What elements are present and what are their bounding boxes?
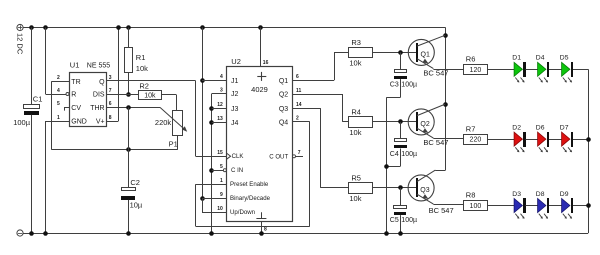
wire D1 to D4 xyxy=(526,69,538,71)
label R5 value 10k xyxy=(349,194,361,203)
wire D9 to return line xyxy=(573,205,588,207)
svg-text:11: 11 xyxy=(296,88,302,94)
node Q3 base junction xyxy=(398,185,403,190)
capacitor C4 xyxy=(384,122,407,169)
svg-text:Q: Q xyxy=(99,79,105,86)
svg-text:U2: U2 xyxy=(231,57,241,66)
svg-text:9: 9 xyxy=(220,192,223,198)
svg-text:10µ: 10µ xyxy=(130,200,143,209)
LED D3 xyxy=(512,191,526,219)
label U1 xyxy=(70,61,80,70)
wire R5 to Q3 base xyxy=(372,187,416,189)
label pin 16 xyxy=(263,60,269,66)
svg-text:Q4: Q4 xyxy=(279,120,288,127)
svg-text:4: 4 xyxy=(57,88,60,94)
label R5 xyxy=(351,174,361,183)
label R3 value 10k xyxy=(349,59,361,68)
svg-text:BC 547: BC 547 xyxy=(423,68,448,77)
capacitor C3 xyxy=(386,52,407,97)
svg-text:Up/Down: Up/Down xyxy=(230,209,255,216)
svg-text:220: 220 xyxy=(470,137,482,144)
plus symbol inside 4029 xyxy=(257,72,266,81)
svg-text:Q2: Q2 xyxy=(420,121,429,128)
svg-text:100µ: 100µ xyxy=(401,151,417,158)
resistor R3 xyxy=(349,48,373,58)
svg-text:4: 4 xyxy=(220,74,223,80)
label P1 value 220k xyxy=(155,118,172,127)
transistor Q2 BC 547 xyxy=(408,104,463,147)
wire D5 to return line xyxy=(573,69,588,71)
svg-text:NE 555: NE 555 xyxy=(87,63,110,70)
4029 J input pin names xyxy=(217,74,238,127)
svg-text:D6: D6 xyxy=(536,125,545,132)
svg-text:Q3: Q3 xyxy=(279,106,288,113)
resistor R7 xyxy=(464,135,488,145)
svg-text:J1: J1 xyxy=(231,78,239,85)
LED D7 xyxy=(560,125,573,153)
label C1 value 100µ xyxy=(13,118,31,127)
wire 4029 Vdd pin 16 to +12 xyxy=(258,25,263,66)
svg-text:1: 1 xyxy=(220,178,223,184)
svg-text:C3: C3 xyxy=(390,82,399,89)
node C1 bottom junction xyxy=(29,231,34,236)
svg-text:U1: U1 xyxy=(70,61,80,70)
svg-text:D5: D5 xyxy=(560,55,569,62)
label C1 xyxy=(33,95,43,104)
LED D9 xyxy=(560,191,573,219)
svg-text:14: 14 xyxy=(296,102,302,108)
svg-text:C2: C2 xyxy=(130,178,140,187)
svg-text:R3: R3 xyxy=(351,38,361,47)
svg-text:R7: R7 xyxy=(466,124,476,133)
555 pin names and numbers xyxy=(57,75,112,126)
label 4029 xyxy=(251,85,268,94)
node Q1 collector junction xyxy=(443,33,448,38)
svg-text:R5: R5 xyxy=(351,174,361,183)
svg-text:10k: 10k xyxy=(136,64,148,73)
svg-text:Q3: Q3 xyxy=(420,187,429,194)
node Q2 collector junction xyxy=(443,102,448,107)
LED D5 xyxy=(560,55,573,83)
svg-text:100µ: 100µ xyxy=(401,217,417,224)
bubble on 555 R pin xyxy=(66,93,69,96)
svg-text:12: 12 xyxy=(217,102,223,108)
label R6 xyxy=(466,55,476,64)
potentiometer P1 xyxy=(160,107,187,149)
resistor R2 xyxy=(139,91,162,100)
label R8 xyxy=(466,191,476,200)
svg-text:100: 100 xyxy=(470,203,482,210)
4029 control pin names xyxy=(217,150,270,216)
svg-text:DIS: DIS xyxy=(93,92,105,99)
wire 555 V+ to +12 rail xyxy=(107,25,121,121)
transistor Q3 BC 547 xyxy=(408,170,463,215)
svg-text:Q2: Q2 xyxy=(279,92,288,99)
label R4 xyxy=(351,108,361,117)
svg-text:16: 16 xyxy=(263,60,269,66)
node C1 top junction xyxy=(29,25,34,30)
wire 555 Q output to 4029 CLK xyxy=(107,81,227,157)
wire LED return vertical xyxy=(588,69,590,233)
svg-text:Binary/Decade: Binary/Decade xyxy=(230,195,271,202)
label C2 xyxy=(130,178,140,187)
svg-text:6: 6 xyxy=(109,101,112,107)
label R4 value 10k xyxy=(349,128,361,137)
wire THR to wiper xyxy=(107,107,160,109)
svg-text:J2: J2 xyxy=(231,91,239,98)
wire R4 to Q2 base xyxy=(372,121,416,123)
LED D6 xyxy=(536,125,549,153)
resistor R1 xyxy=(125,28,133,95)
svg-text:BC 547: BC 547 xyxy=(429,206,454,215)
wire D7 to return line xyxy=(573,139,588,141)
label R7 value 220 xyxy=(470,137,482,144)
wire 4029 Q1 to R3 xyxy=(293,53,349,81)
svg-text:10k: 10k xyxy=(349,59,361,68)
svg-text:R1: R1 xyxy=(136,53,146,62)
svg-text:P1: P1 xyxy=(169,140,178,149)
capacitor C2 xyxy=(121,150,136,233)
wire DIS to R2 xyxy=(107,94,139,96)
op-amp U1 NE 555 box xyxy=(70,73,107,127)
capacitor C1 xyxy=(24,105,40,234)
clock chevron xyxy=(227,153,231,159)
svg-text:220k: 220k xyxy=(155,118,172,127)
label R1 xyxy=(136,53,146,62)
svg-text:R4: R4 xyxy=(351,108,361,117)
LED D8 xyxy=(536,191,549,219)
wire 555 GND to ground rail xyxy=(43,121,69,236)
svg-text:J4: J4 xyxy=(231,120,239,127)
wire D6 to D7 xyxy=(549,139,562,141)
wire C3/C4 ground line xyxy=(384,98,389,236)
resistor R6 xyxy=(464,65,488,75)
wire 4029 Q2 to R4 xyxy=(293,94,349,122)
label 12 DC (rotated) xyxy=(16,33,25,55)
label C2 value 10µ xyxy=(130,200,143,209)
counter U2 4029 box xyxy=(227,67,293,222)
svg-text:13: 13 xyxy=(217,116,223,122)
wire D8 to D9 xyxy=(549,205,562,207)
svg-text:THR: THR xyxy=(90,105,104,112)
svg-text:C OUT: C OUT xyxy=(269,153,288,160)
svg-text:R6: R6 xyxy=(466,55,476,64)
svg-text:GND: GND xyxy=(71,119,87,126)
4029 Q output pin names xyxy=(279,74,302,126)
4029 C OUT pin xyxy=(269,150,303,160)
svg-text:10k: 10k xyxy=(144,92,156,99)
svg-text:CLK: CLK xyxy=(232,153,244,160)
node R1 top junction xyxy=(126,25,131,30)
resistor R5 xyxy=(349,183,373,194)
svg-text:4029: 4029 xyxy=(251,85,268,94)
svg-text:100µ: 100µ xyxy=(13,118,31,127)
label C3 100µ xyxy=(390,82,417,89)
wire J2 J3 J4 CIN ground net xyxy=(209,94,226,236)
svg-text:15: 15 xyxy=(217,150,223,156)
label C4 100µ xyxy=(390,151,417,158)
svg-text:12 DC: 12 DC xyxy=(16,33,25,55)
wire R3 to Q1 base xyxy=(372,52,416,54)
svg-text:BC 547: BC 547 xyxy=(423,138,448,147)
svg-text:8: 8 xyxy=(264,226,267,232)
capacitor C5 xyxy=(394,188,407,236)
svg-text:CV: CV xyxy=(71,105,81,112)
svg-text:1: 1 xyxy=(57,115,60,121)
svg-text:6: 6 xyxy=(296,74,299,80)
svg-text:3: 3 xyxy=(109,75,112,81)
svg-text:D9: D9 xyxy=(560,191,569,198)
wire D4 to D5 xyxy=(549,69,562,71)
resistor R8 xyxy=(464,201,488,211)
label R6 value 120 xyxy=(470,67,482,74)
wire ground bottom rail xyxy=(23,233,588,235)
svg-text:120: 120 xyxy=(470,67,482,74)
transistor Q1 BC 547 xyxy=(408,35,463,77)
node Q2 base junction xyxy=(398,119,403,124)
label R2 xyxy=(139,81,149,90)
LED D1 xyxy=(512,55,526,83)
svg-text:10k: 10k xyxy=(349,194,361,203)
svg-text:D3: D3 xyxy=(512,191,521,198)
resistor R4 xyxy=(349,117,373,128)
wire +12V top rail xyxy=(23,27,446,29)
svg-text:V+: V+ xyxy=(96,119,105,126)
node THR junction xyxy=(126,105,131,110)
svg-text:2: 2 xyxy=(57,75,60,81)
label P1 xyxy=(169,140,178,149)
svg-text:2: 2 xyxy=(296,116,299,122)
wire 4029 Q3 to R5 xyxy=(293,108,349,187)
wire 555 reset pin to +12 xyxy=(43,25,66,94)
svg-text:7: 7 xyxy=(109,88,112,94)
wire C1 to +12 xyxy=(31,28,33,105)
label R8 value 100 xyxy=(470,203,482,210)
svg-text:D2: D2 xyxy=(512,125,521,132)
svg-text:R8: R8 xyxy=(466,191,476,200)
node DIS junction xyxy=(126,92,131,97)
node return row3 junction xyxy=(586,203,591,208)
LED D2 xyxy=(512,125,526,153)
label C5 100µ xyxy=(390,217,417,224)
wire TR/THR/C2/P1 bottom line xyxy=(52,149,178,151)
svg-text:TR: TR xyxy=(71,79,80,86)
svg-text:C1: C1 xyxy=(33,95,43,104)
wire THR node to TR line (C2 top) xyxy=(128,107,130,149)
ground symbol inside 4029 xyxy=(256,212,266,218)
node C2 ground junction xyxy=(126,231,131,236)
wire Preset Enable to Q4 output xyxy=(196,122,310,227)
label NE 555 xyxy=(87,63,110,70)
wire 4029 Vss pin 8 to ground xyxy=(259,222,264,236)
svg-text:Preset Enable: Preset Enable xyxy=(230,181,269,188)
label R3 xyxy=(351,38,361,47)
svg-text:J3: J3 xyxy=(231,106,239,113)
svg-text:100µ: 100µ xyxy=(401,82,417,89)
wire R7 to D2 xyxy=(488,139,514,141)
svg-text:5: 5 xyxy=(57,101,60,107)
label R7 xyxy=(466,124,476,133)
svg-text:D7: D7 xyxy=(560,125,569,132)
label R1 value 10k xyxy=(136,64,148,73)
svg-text:7: 7 xyxy=(298,150,301,156)
bubble on C IN pin xyxy=(223,169,226,172)
svg-text:R2: R2 xyxy=(139,81,149,90)
LED D4 xyxy=(536,55,549,83)
wire R8 to D3 xyxy=(488,205,514,207)
label U2 xyxy=(231,57,241,66)
wire R2 to P1 top xyxy=(161,95,176,111)
+12V supply terminal xyxy=(17,24,23,30)
svg-text:R: R xyxy=(71,92,76,99)
node Q1 base junction xyxy=(398,50,403,55)
wire 555 CV stub xyxy=(64,107,69,110)
label pin 8 xyxy=(264,226,267,232)
svg-text:Q1: Q1 xyxy=(421,51,430,58)
svg-text:C4: C4 xyxy=(390,151,399,158)
wire +12 to J1/BD/UD net xyxy=(200,25,226,212)
node C2 tap on TR line xyxy=(126,147,131,152)
node return row2 junction xyxy=(586,137,591,142)
svg-text:5: 5 xyxy=(220,164,223,170)
svg-text:D1: D1 xyxy=(512,55,521,62)
wire R6 to D1 xyxy=(488,69,514,71)
svg-text:C5: C5 xyxy=(390,217,399,224)
svg-text:C IN: C IN xyxy=(231,167,243,174)
wire 555 TR pin left and down xyxy=(52,81,70,150)
wire D3 to D8 xyxy=(526,205,538,207)
svg-text:8: 8 xyxy=(109,115,112,121)
label R2 value 10k xyxy=(144,92,156,99)
svg-text:D8: D8 xyxy=(536,191,545,198)
wire collector feed from +12 rail xyxy=(435,28,445,171)
svg-text:10k: 10k xyxy=(349,128,361,137)
svg-text:D4: D4 xyxy=(536,55,545,62)
svg-text:Q1: Q1 xyxy=(279,78,288,85)
wire D2 to D6 xyxy=(526,139,538,141)
ground terminal xyxy=(17,230,23,236)
svg-text:10: 10 xyxy=(217,206,223,212)
svg-text:3: 3 xyxy=(220,87,223,93)
